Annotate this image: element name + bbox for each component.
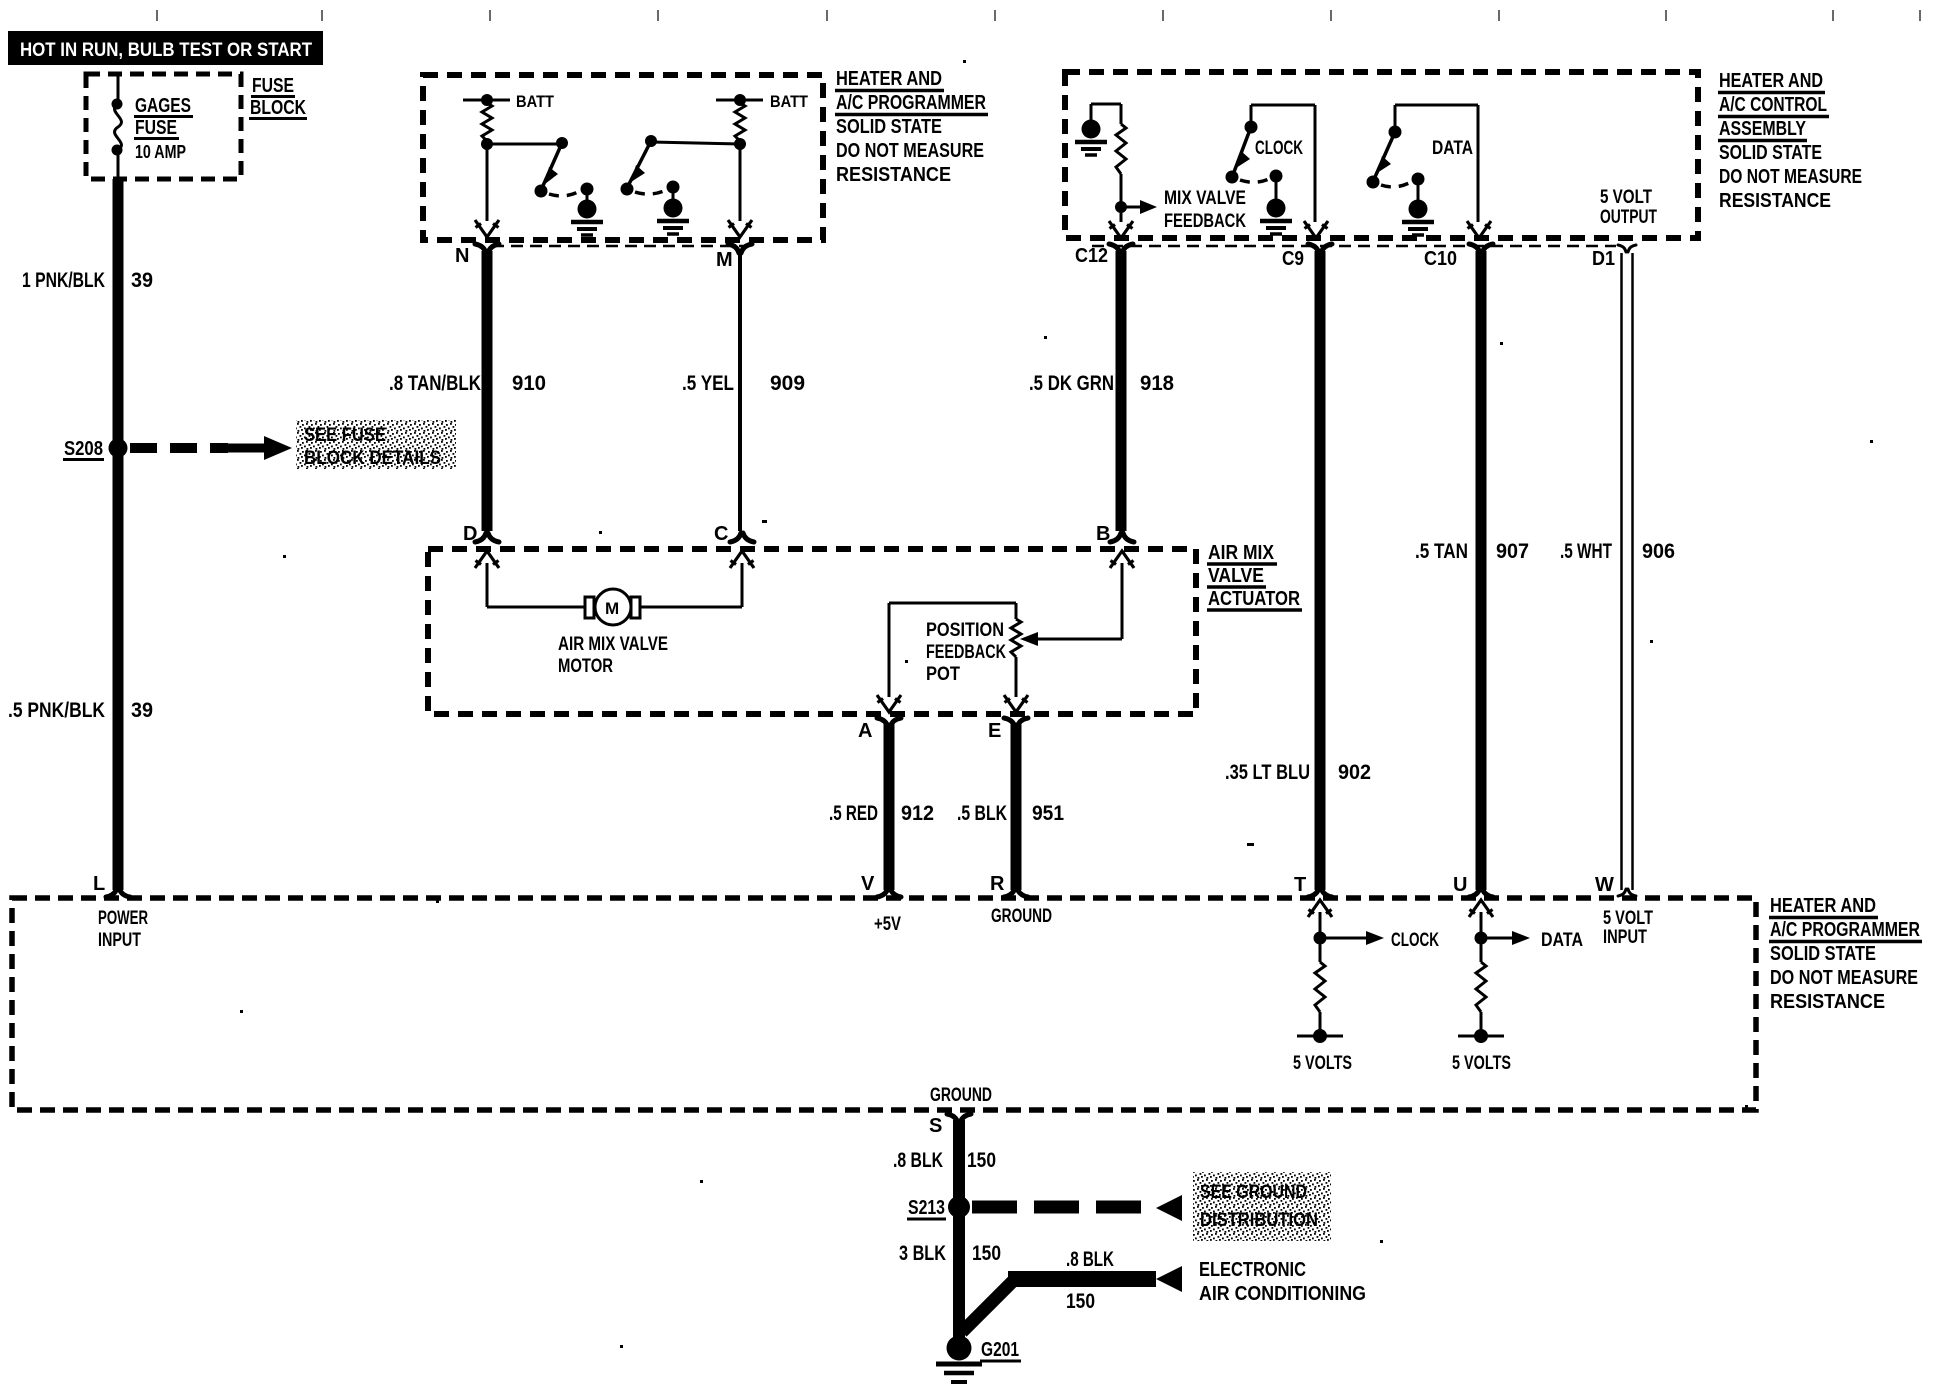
switch link dashed: [635, 190, 666, 194]
svg-text:RESISTANCE: RESISTANCE: [1719, 190, 1831, 212]
svg-text:DATA: DATA: [1541, 930, 1583, 951]
switch link dashed: [549, 191, 580, 196]
svg-text:RESISTANCE: RESISTANCE: [836, 164, 951, 186]
svg-text:M: M: [716, 249, 733, 271]
svg-text:A/C PROGRAMMER: A/C PROGRAMMER: [1770, 919, 1920, 941]
svg-text:GROUND: GROUND: [991, 906, 1052, 927]
terminal C receptacle: [730, 533, 754, 542]
splice S208: [109, 439, 128, 458]
resistor mix valve feedback: [1116, 124, 1126, 174]
svg-text:C9: C9: [1282, 248, 1304, 270]
svg-text:.5 RED: .5 RED: [829, 802, 878, 825]
thin dashed line under box bottom: [492, 245, 748, 248]
heater and A/C programmer box (bottom): [12, 898, 1756, 1110]
switch arm left: [542, 143, 562, 188]
resistor clock pull-up: [1319, 938, 1322, 962]
svg-text:C12: C12: [1075, 245, 1108, 267]
svg-text:VALVE: VALVE: [1208, 565, 1264, 587]
wire to M: [739, 144, 742, 221]
CLOCK switch: [1251, 104, 1315, 107]
reference box SEE FUSE BLOCK DETAILS: [296, 420, 456, 469]
pin U arrow: [1469, 900, 1493, 917]
svg-text:AIR MIX VALVE: AIR MIX VALVE: [558, 634, 668, 655]
fuse GAGES FUSE element: [115, 104, 122, 150]
BATT feed left: [463, 99, 510, 102]
svg-text:BATT: BATT: [516, 92, 555, 111]
svg-text:D1: D1: [1592, 248, 1615, 270]
5 volts terminal clock: [1297, 1035, 1343, 1038]
svg-text:POT: POT: [926, 664, 960, 685]
svg-text:.5 TAN: .5 TAN: [1415, 540, 1468, 563]
svg-text:39: 39: [131, 699, 153, 722]
svg-text:MIX VALVE: MIX VALVE: [1164, 188, 1246, 209]
svg-text:DO NOT MEASURE: DO NOT MEASURE: [1719, 166, 1862, 188]
terminal M: [728, 244, 752, 253]
ground left switch: [586, 189, 589, 201]
terminal C9: [1308, 244, 1332, 253]
svg-text:SEE GROUND: SEE GROUND: [1200, 1182, 1307, 1203]
wire circuit 912 .5 RED: [884, 724, 895, 890]
svg-text:.5 WHT: .5 WHT: [1560, 540, 1612, 563]
wire circuit 902 .35 LT BLU: [1315, 251, 1326, 890]
position feedback pot resistor: [1011, 619, 1021, 657]
pot wiper arrow: [1034, 638, 1122, 641]
svg-text:.5 YEL: .5 YEL: [682, 372, 734, 395]
air mix valve actuator box: [428, 549, 1196, 714]
svg-text:RESISTANCE: RESISTANCE: [1770, 991, 1885, 1013]
terminal E: [1004, 718, 1028, 727]
reference box SEE GROUND DISTRIBUTION: [1193, 1172, 1331, 1241]
svg-text:T: T: [1294, 874, 1306, 896]
arrow to fuse block details: [228, 444, 268, 453]
wire pot bottom to E: [1015, 657, 1018, 697]
label FUSE BLOCK: [250, 75, 306, 119]
label GAGES FUSE 10 AMP: [135, 95, 191, 162]
wire to switch: [651, 142, 740, 144]
svg-text:FUSE: FUSE: [135, 117, 177, 139]
node T: [1314, 932, 1327, 945]
node: [481, 138, 493, 150]
terminal N: [475, 244, 499, 253]
svg-text:ASSEMBLY: ASSEMBLY: [1719, 118, 1807, 140]
svg-text:5 VOLTS: 5 VOLTS: [1452, 1053, 1511, 1074]
terminal V receptacle: [877, 888, 901, 897]
svg-text:951: 951: [1032, 802, 1064, 825]
wire branch to electronic air conditioning: [962, 1281, 1013, 1332]
svg-text:SOLID STATE: SOLID STATE: [836, 116, 942, 138]
svg-text:R: R: [990, 873, 1005, 895]
pin C arrow: [730, 551, 754, 568]
svg-text:INPUT: INPUT: [1603, 927, 1647, 948]
svg-text:.35 LT BLU: .35 LT BLU: [1225, 761, 1310, 784]
terminal C10: [1469, 244, 1493, 253]
svg-text:CLOCK: CLOCK: [1391, 930, 1439, 951]
svg-text:AIR CONDITIONING: AIR CONDITIONING: [1199, 1283, 1366, 1305]
svg-text:1 PNK/BLK: 1 PNK/BLK: [22, 269, 105, 292]
svg-text:907: 907: [1496, 540, 1529, 563]
wire to switch: [487, 143, 562, 146]
svg-text:SOLID STATE: SOLID STATE: [1719, 142, 1822, 164]
thin dashed line under box bottom: [1092, 245, 1616, 248]
svg-text:C: C: [714, 523, 728, 545]
svg-text:MOTOR: MOTOR: [558, 656, 613, 677]
wire dashed branch from S208: [130, 443, 228, 453]
svg-text:DO NOT MEASURE: DO NOT MEASURE: [1770, 967, 1918, 989]
svg-text:HOT IN RUN, BULB TEST OR START: HOT IN RUN, BULB TEST OR START: [20, 40, 312, 61]
svg-text:DISTRIBUTION: DISTRIBUTION: [1200, 1210, 1318, 1231]
wire circuit 918 .5 DK GRN: [1116, 251, 1127, 531]
svg-text:.5 DK GRN: .5 DK GRN: [1029, 372, 1114, 395]
svg-text:39: 39: [131, 269, 153, 292]
svg-text:150: 150: [967, 1149, 996, 1172]
svg-text:BATT: BATT: [770, 92, 809, 111]
wire pot top to A: [888, 603, 891, 697]
svg-text:.8 TAN/BLK: .8 TAN/BLK: [389, 372, 481, 395]
arrow mix valve feedback: [1121, 206, 1143, 209]
terminal W receptacle: [1618, 889, 1636, 896]
switch arm right: [628, 141, 651, 186]
svg-text:L: L: [93, 873, 105, 895]
wire circuit 150 .8 BLK: [953, 1120, 965, 1342]
svg-text:ACTUATOR: ACTUATOR: [1208, 588, 1300, 610]
svg-text:OUTPUT: OUTPUT: [1600, 207, 1657, 228]
svg-text:5 VOLT: 5 VOLT: [1600, 187, 1652, 208]
svg-text:E: E: [988, 720, 1001, 742]
svg-text:FEEDBACK: FEEDBACK: [1164, 211, 1246, 232]
svg-text:AIR MIX: AIR MIX: [1208, 542, 1275, 564]
terminal U receptacle: [1469, 888, 1493, 897]
svg-text:5 VOLTS: 5 VOLTS: [1293, 1053, 1352, 1074]
svg-text:C10: C10: [1424, 248, 1457, 270]
svg-text:CLOCK: CLOCK: [1255, 138, 1303, 159]
node: [734, 138, 746, 150]
terminal R receptacle: [1004, 888, 1028, 897]
label AIR MIX VALVE ACTUATOR: [1208, 542, 1300, 610]
svg-text:INPUT: INPUT: [98, 930, 141, 951]
svg-text:5 VOLT: 5 VOLT: [1603, 908, 1653, 929]
svg-text:BLOCK: BLOCK: [250, 97, 306, 119]
DATA switch: [1395, 104, 1478, 107]
svg-text:.5 PNK/BLK: .5 PNK/BLK: [8, 699, 105, 722]
BATT feed right: [716, 99, 763, 102]
arrow CLOCK: [1320, 937, 1369, 940]
svg-text:FUSE: FUSE: [252, 75, 294, 97]
svg-text:POSITION: POSITION: [926, 620, 1004, 641]
svg-text:906: 906: [1642, 540, 1675, 563]
wire to node: [1120, 174, 1123, 207]
ground in control assembly: [1075, 120, 1107, 156]
svg-text:GROUND: GROUND: [930, 1085, 992, 1106]
svg-text:HEATER AND: HEATER AND: [836, 68, 942, 90]
splice S213: [948, 1196, 970, 1218]
wire: [1091, 103, 1121, 106]
svg-text:M: M: [605, 599, 619, 618]
svg-text:DO NOT MEASURE: DO NOT MEASURE: [836, 140, 984, 162]
svg-text:U: U: [1453, 874, 1467, 896]
terminal B receptacle: [1110, 533, 1134, 542]
arrow DATA: [1481, 937, 1515, 940]
wire circuit 951 .5 BLK: [1011, 724, 1022, 890]
heater and A/C programmer box (top): [423, 75, 823, 240]
terminal D1: [1618, 245, 1636, 252]
5 volts terminal data: [1458, 1035, 1504, 1038]
svg-text:3 BLK: 3 BLK: [899, 1242, 946, 1265]
svg-text:S: S: [929, 1115, 942, 1137]
svg-text:+5V: +5V: [874, 914, 901, 935]
svg-text:.8 BLK: .8 BLK: [1066, 1248, 1114, 1271]
svg-text:B: B: [1096, 523, 1110, 545]
svg-text:SEE FUSE: SEE FUSE: [304, 425, 386, 446]
pin T arrow: [1308, 900, 1332, 917]
wire into fuse: [117, 74, 120, 104]
svg-text:150: 150: [972, 1242, 1001, 1265]
terminal T receptacle: [1308, 888, 1332, 897]
svg-text:910: 910: [512, 372, 546, 395]
wire circuit 907 .5 TAN: [1476, 251, 1487, 890]
svg-text:W: W: [1595, 874, 1614, 896]
svg-text:N: N: [455, 245, 469, 267]
svg-text:G201: G201: [981, 1339, 1019, 1361]
svg-text:GAGES: GAGES: [135, 95, 191, 117]
terminal L receptacle: [106, 888, 130, 897]
svg-text:S213: S213: [908, 1197, 945, 1219]
svg-text:D: D: [463, 523, 477, 545]
wire from motor to C: [640, 606, 742, 609]
wire: [117, 150, 120, 179]
resistor left BATT: [482, 103, 492, 141]
fuse terminal node bottom: [112, 145, 123, 156]
svg-text:909: 909: [770, 372, 805, 395]
pin D arrow: [475, 551, 499, 568]
svg-text:HEATER AND: HEATER AND: [1770, 895, 1876, 917]
svg-text:S208: S208: [64, 438, 103, 460]
fuse block dashed box: [86, 74, 241, 179]
svg-text:SOLID STATE: SOLID STATE: [1770, 943, 1876, 965]
air mix valve motor M: [585, 589, 640, 625]
wire circuit 39 PNK/BLK from fuse to L: [113, 179, 124, 890]
svg-text:A/C CONTROL: A/C CONTROL: [1719, 94, 1827, 116]
label block HEATER AND A/C CONTROL ASSEMBLY: [1719, 70, 1862, 212]
wire to C12: [1120, 207, 1123, 222]
fuse terminal node top: [112, 99, 123, 110]
svg-text:FEEDBACK: FEEDBACK: [926, 642, 1006, 663]
svg-text:912: 912: [901, 802, 934, 825]
svg-text:.5 BLK: .5 BLK: [957, 802, 1007, 825]
svg-text:918: 918: [1140, 372, 1174, 395]
wire circuit 906 .5 WHT double line: [1620, 253, 1623, 890]
wire to motor: [487, 606, 587, 609]
label block HEATER AND A/C PROGRAMMER (bottom right): [1770, 895, 1920, 1013]
wire to N: [486, 144, 489, 221]
terminal C12: [1109, 244, 1133, 253]
svg-text:150: 150: [1066, 1290, 1095, 1313]
svg-text:DATA: DATA: [1432, 138, 1473, 159]
pin B arrow: [1110, 551, 1134, 568]
svg-text:ELECTRONIC: ELECTRONIC: [1199, 1259, 1306, 1281]
label block HEATER AND A/C PROGRAMMER SOLID STATE: [836, 68, 986, 186]
ground clock switch: [1260, 199, 1292, 235]
ground G201: [947, 1336, 972, 1361]
wire to C9: [1314, 105, 1317, 222]
terminal S receptacle: [947, 1114, 971, 1123]
svg-text:.8 BLK: .8 BLK: [893, 1149, 943, 1172]
terminal A: [877, 718, 901, 727]
wire circuit 910 .8 TAN/BLK: [482, 251, 493, 531]
resistor right BATT: [735, 103, 745, 141]
svg-text:BLOCK DETAILS: BLOCK DETAILS: [304, 448, 441, 469]
resistor data pull-up: [1480, 938, 1483, 962]
svg-text:HEATER AND: HEATER AND: [1719, 70, 1823, 92]
svg-text:POWER: POWER: [98, 908, 148, 929]
wire to C10: [1477, 105, 1480, 222]
ground right switch: [672, 187, 675, 200]
svg-text:10 AMP: 10 AMP: [135, 142, 186, 162]
ground data switch: [1402, 200, 1434, 236]
node U: [1475, 932, 1488, 945]
heater and A/C control assembly box: [1065, 72, 1698, 238]
terminal D receptacle: [475, 533, 499, 542]
svg-text:A/C PROGRAMMER: A/C PROGRAMMER: [836, 92, 986, 114]
svg-text:902: 902: [1338, 761, 1371, 784]
svg-text:A: A: [858, 720, 872, 742]
wire circuit 909 .5 YEL: [738, 251, 742, 531]
title banner HOT IN RUN, BULB TEST OR START: [8, 31, 323, 65]
svg-text:V: V: [861, 873, 875, 895]
wire dashed to ground distribution: [972, 1201, 1156, 1214]
